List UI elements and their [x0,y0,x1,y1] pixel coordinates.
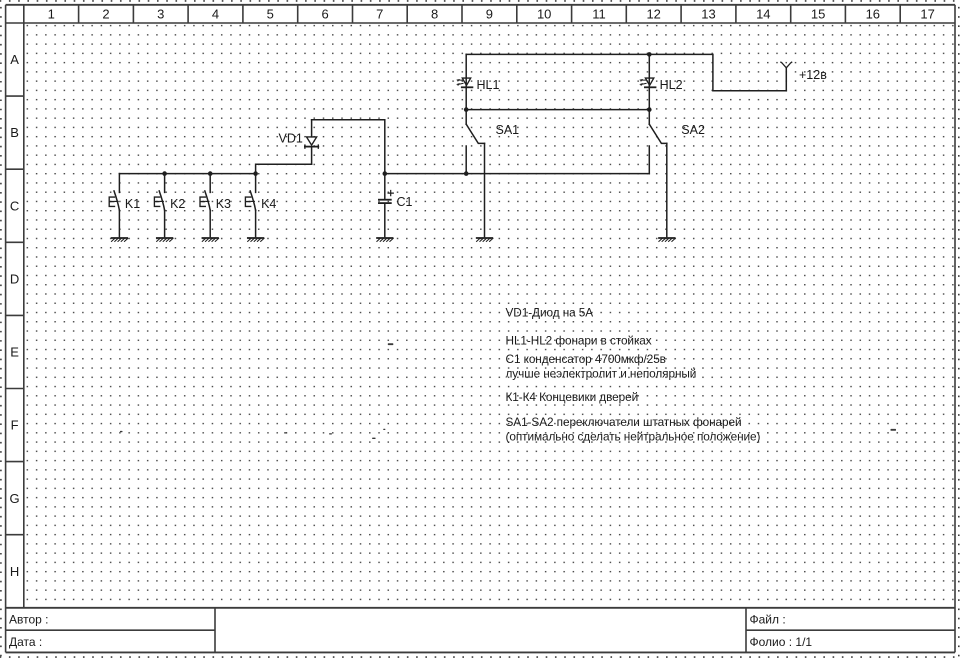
svg-text:9: 9 [486,7,493,22]
ground (K1) [112,238,128,241]
svg-text:A: A [10,52,19,67]
svg-text:F: F [11,418,19,433]
svg-text:H: H [10,564,19,579]
ground (K2) [157,238,173,241]
svg-text:(оптимально сделать нейтрально: (оптимально сделать нейтральное положени… [506,430,761,444]
ground (C1) [377,238,393,241]
wire: HL2 vertical branch [648,54,650,109]
note: HL1-HL2 фонари в стойках [506,334,652,348]
note: VD1-Диод на 5А [506,305,594,319]
svg-text:13: 13 [701,7,715,22]
svg-text:6: 6 [321,7,328,22]
svg-text:14: 14 [756,7,770,22]
lamp (LED) HL1 [457,78,500,92]
svg-text:12: 12 [646,7,660,22]
wire: door-switch horizontal net K1..K4 [119,173,255,175]
wire: horizontal link between SA1 and SA2 poles [466,109,649,111]
svg-text:K4: K4 [261,197,276,211]
svg-text:16: 16 [866,7,880,22]
svg-text:С1 конденсатор 4700мкф/25в: С1 конденсатор 4700мкф/25в [506,352,666,366]
svg-text:SA1: SA1 [496,123,520,137]
svg-text:Автор :: Автор : [9,613,49,627]
wire: VD1 cathode-side top wire over to C1 [312,120,385,174]
svg-text:HL2: HL2 [660,78,683,92]
node: SA1 throw junction [464,171,469,176]
ground (SA2) [659,238,675,241]
svg-text:10: 10 [537,7,551,22]
svg-text:5: 5 [267,7,274,22]
svg-text:7: 7 [376,7,383,22]
node: K3 tap [208,171,213,176]
svg-text:3: 3 [157,7,164,22]
limit switch K2 (door sensor) [154,174,185,237]
svg-text:B: B [10,125,19,140]
svg-text:+12в: +12в [799,68,827,82]
node: K2 tap [162,171,167,176]
lamp (LED) HL2 [640,78,683,92]
svg-text:лучше неэлектролит и неполярны: лучше неэлектролит и неполярный [506,366,697,380]
switch SA2 (changeover) [649,110,705,174]
stray pen marks (as in source image) [120,343,896,439]
limit switch K4 (door sensor) [245,174,276,237]
node: K4 tap [253,171,258,176]
ground (K4) [248,238,264,241]
node: junction of supply rail and HL2 [647,52,652,57]
svg-text:HL1-HL2 фонари в стойках: HL1-HL2 фонари в стойках [506,334,652,348]
svg-text:K2: K2 [170,197,185,211]
wire: HL1 vertical branch [465,54,467,109]
svg-text:SA1-SA2 переключатели штатных: SA1-SA2 переключатели штатных фонарей [506,415,742,429]
svg-text:2: 2 [102,7,109,22]
svg-text:11: 11 [592,7,606,22]
svg-text:15: 15 [811,7,825,22]
limit switch K1 (door sensor) [109,174,140,237]
svg-text:K3: K3 [216,197,231,211]
svg-text:8: 8 [431,7,438,22]
svg-text:D: D [10,271,19,286]
svg-text:VD1-Диод на 5А: VD1-Диод на 5А [506,305,594,319]
svg-text:Дата :: Дата : [9,635,42,649]
switch SA1 (changeover) [466,110,519,174]
svg-text:Фолио : 1/1: Фолио : 1/1 [750,635,813,649]
node: HL2 / SA2 pole [647,107,652,112]
diode VD1 [279,120,319,164]
svg-text:1: 1 [48,7,55,22]
svg-text:G: G [10,491,20,506]
power terminal +12в [781,62,827,91]
svg-text:Файл :: Файл : [750,613,786,627]
svg-text:К1-К4 Концевики дверей: К1-К4 Концевики дверей [506,390,639,404]
limit switch K3 (door sensor) [200,174,231,237]
capacitor C1 [379,174,413,237]
svg-text:4: 4 [212,7,219,22]
svg-text:C1: C1 [397,195,413,209]
wire: +12v supply rail from HL1/HL2 tops to supply corner [466,54,786,90]
svg-text:HL1: HL1 [477,78,500,92]
wire: VD1 anode-side down to door-switch net [256,164,312,173]
note: лучше неэлектролит и неполярный [506,366,697,380]
note: С1 конденсатор 4700мкф/25в [506,352,666,366]
ground (K3) [202,238,218,241]
svg-text:VD1: VD1 [279,132,303,146]
note: SA1-SA2 переключатели штатных фонарей [506,415,742,429]
svg-text:17: 17 [920,7,934,22]
note: (оптимально сделать нейтральное положение) [506,430,761,444]
svg-text:SA2: SA2 [681,123,705,137]
svg-text:E: E [10,345,19,360]
svg-text:K1: K1 [125,197,140,211]
wire: SA2 right throw down to ground [666,143,668,236]
note: К1-К4 Концевики дверей [506,390,639,404]
node: HL1 / SA1 pole [464,107,469,112]
svg-text:C: C [10,198,19,213]
wire: SA1 right throw down to ground [484,143,486,236]
wire: main horizontal net C1 to SA2 throw [385,173,650,175]
ground (SA1) [477,238,493,241]
node: C1 top junction [383,171,388,176]
